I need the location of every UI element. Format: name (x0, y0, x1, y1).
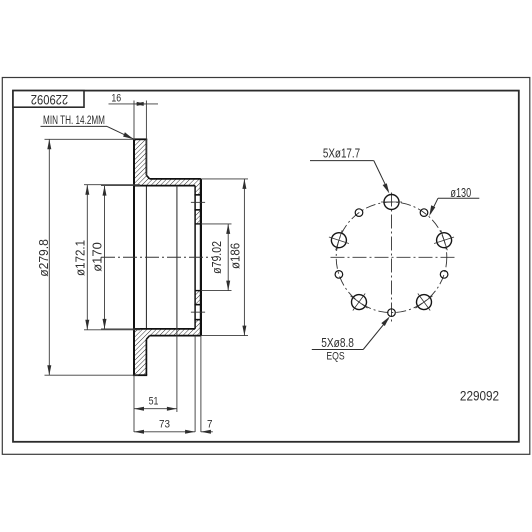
svg-text:229092: 229092 (31, 91, 68, 106)
ring inner silhouette line between bands (145, 186, 147, 329)
flange bar left edge (194, 186, 196, 329)
hatch fill: ring bottom + hat band bottom + bar bottom segment (134, 320, 201, 376)
small hole right (&#216;8.8) (440, 271, 448, 279)
vertical centreline (391, 193, 393, 325)
svg-text:73: 73 (159, 419, 170, 431)
stud hole bottom-left (&#216;17.7) (344, 287, 373, 316)
small hole upper-right (&#216;8.8) (420, 209, 428, 217)
title box (13, 91, 84, 108)
svg-text:ø172.1: ø172.1 (73, 240, 88, 276)
svg-text:EQS: EQS (326, 351, 345, 363)
label 5XØ17.7 with leader (310, 148, 389, 194)
svg-text:7: 7 (207, 419, 213, 431)
dim 16 (109, 92, 159, 175)
horizontal centreline (331, 256, 457, 258)
leader MIN TH. 14.2MM (41, 115, 134, 139)
inner border frame (13, 91, 519, 442)
ring right edge top (145, 139, 147, 175)
flange bar right edge (200, 179, 202, 336)
dim 7 (201, 336, 213, 432)
svg-text:229092: 229092 (460, 387, 499, 403)
dim Ø170 (90, 186, 141, 329)
svg-text:ø186: ø186 (228, 243, 243, 269)
dim Ø186 (201, 179, 248, 336)
outer border frame (2, 78, 530, 455)
hatch fill: ring top + hat band top + bar top segment (134, 139, 201, 195)
small hole bottom (&#216;8.8) (388, 309, 396, 317)
svg-text:5Xø8.8: 5Xø8.8 (321, 336, 354, 350)
ring bottom edge (133, 374, 147, 376)
centre bore bottom edge (195, 290, 201, 292)
dim Ø79.02 (201, 224, 232, 291)
dim Ø172.1 (73, 185, 140, 330)
label 5XØ8.8 EQS with leader (312, 316, 390, 362)
hat band top outer edge (Ø186) (150, 178, 201, 180)
hat band bottom outer edge (150, 335, 201, 337)
stud hole bottom: edges (194, 304, 201, 306)
disc outer face (ring left edge) (133, 139, 135, 375)
stud hole top (&#216;17.7) (381, 195, 402, 210)
svg-text:5Xø17.7: 5Xø17.7 (323, 148, 360, 161)
dim 51 (134, 186, 177, 412)
stud hole bottom: centreline (191, 311, 205, 313)
svg-text:51: 51 (149, 395, 159, 407)
chamfer bottom (146, 336, 149, 340)
small hole left (&#216;8.8) (335, 271, 343, 279)
section axis centreline (101, 256, 213, 258)
small hole upper-left (&#216;8.8) (355, 209, 363, 217)
hatch fill: bar segment between top hole and bore (195, 210, 201, 224)
drum floor line (176, 186, 178, 329)
stud hole top: centreline (191, 201, 205, 203)
hat band bottom inner edge (134, 328, 195, 330)
svg-text:MIN TH. 14.2MM: MIN TH. 14.2MM (43, 115, 105, 128)
dim 73 (134, 336, 195, 432)
ring right edge bottom (145, 339, 147, 375)
ring top edge (133, 138, 147, 140)
hatch fill: bar segment between bore and bottom hole (195, 291, 201, 305)
stud hole left-upper (&#216;17.7) (326, 227, 352, 253)
bolt circle centreline (336, 202, 447, 313)
stud hole top: edges (194, 194, 201, 196)
svg-text:ø170: ø170 (90, 242, 105, 272)
centre bore top edge (195, 223, 201, 225)
svg-text:ø279.8: ø279.8 (36, 239, 50, 277)
stud hole right-upper (&#216;17.7) (431, 227, 457, 253)
stud hole bottom-right (&#216;17.7) (409, 287, 438, 316)
svg-text:16: 16 (111, 92, 121, 104)
chamfer top (146, 175, 149, 179)
hat band top inner edge (Ø170) (134, 185, 195, 187)
svg-text:ø79.02: ø79.02 (209, 241, 224, 274)
label Ø130 with leader (429, 187, 479, 216)
dim Ø279.8 (36, 139, 138, 375)
